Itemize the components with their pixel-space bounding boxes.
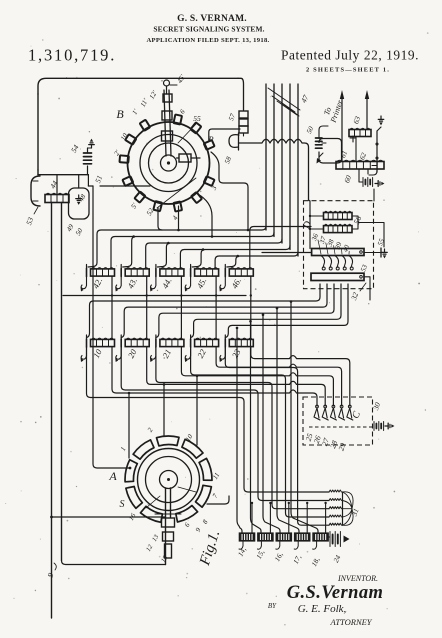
hump crossing wire (239, 139, 309, 200)
relay coil 43. (115, 265, 149, 292)
wire A brush to fan apex (207, 496, 229, 504)
fan arc (343, 508, 353, 510)
scan speckles (144, 98, 145, 99)
wire lower horizontal to A brush bottom (62, 561, 166, 565)
line relay 14, top wires (241, 532, 243, 534)
ground battery 24 (329, 532, 331, 547)
A ring segment at 76 deg (157, 436, 180, 446)
fan common vertical (342, 492, 344, 525)
wire from B left into hub (100, 185, 150, 187)
wire 60 to battery (359, 169, 368, 182)
svg-text:APPLICATION FILED SEPT. 13, 19: APPLICATION FILED SEPT. 13, 1918. (146, 37, 269, 44)
arrow under 50 (317, 158, 322, 164)
B contact pad at 282 deg (174, 202, 182, 212)
relay coil 42. (81, 265, 115, 292)
relay coil 45. (185, 265, 219, 292)
wire from pad 256deg down to bus 1 (158, 208, 162, 230)
wire from pad 24deg up to printer-side run (209, 129, 240, 140)
wire 56 right (352, 216, 358, 229)
leader lines at A (178, 487, 196, 492)
line relay 18, bottom hook (313, 541, 317, 549)
D bar1 right terminal (360, 251, 363, 254)
relay coil 44. (150, 265, 184, 292)
relay row1 unit 5 top-right riser (250, 227, 311, 269)
wire to printer arrow (341, 96, 343, 160)
D bar2 right terminal (360, 276, 363, 279)
B contact pad at 78 deg (174, 114, 182, 124)
A brush element 15 (165, 544, 172, 558)
small perp 62 (352, 136, 354, 142)
rotary distributor B inner circle (149, 143, 189, 183)
bus wire telegraph 4 to relay row1 unit 4 (192, 246, 290, 268)
bus wire telegraph 3 to relay row1 unit 3 (157, 239, 282, 267)
ground right of battery (375, 183, 378, 185)
D contact bar 2 (311, 273, 364, 280)
junction dots for distributor A feeds (128, 392, 131, 395)
svg-text:P: P (207, 134, 213, 144)
svg-text:55: 55 (193, 114, 201, 123)
wire 48 to bus (78, 175, 80, 188)
D contact finger 1 (321, 256, 325, 268)
relay coil 20 (115, 335, 149, 362)
C contact 1 (316, 405, 319, 408)
coil 57 stack (239, 111, 248, 118)
svg-text:1,310,719.: 1,310,719. (28, 46, 116, 65)
ladder resistor 5 (329, 523, 342, 525)
B contact pad at 148 deg (125, 134, 136, 144)
bus wire telegraph 1 to relay row1 unit 1 (88, 226, 266, 267)
D contact bar 1 (312, 249, 364, 256)
svg-text:G. S. VERNAM.: G. S. VERNAM. (177, 14, 247, 24)
svg-text:S: S (120, 499, 125, 510)
svg-text:SECRET SIGNALING SYSTEM.: SECRET SIGNALING SYSTEM. (153, 25, 264, 34)
wire 51 vertical (87, 175, 89, 186)
dashed relay box D (304, 201, 374, 289)
wire from long vertical to A brush (52, 516, 166, 518)
row1 unit 5 bottom drop to row2 coil (250, 276, 252, 339)
B arm top terminal (164, 80, 170, 86)
bus wire D exit 3 to relay row2 unit 3 (156, 284, 334, 338)
line relay 15, top wires (259, 532, 261, 534)
A circle outer (138, 449, 200, 511)
wire top horizontal main loop (38, 78, 238, 94)
D contact finger 2 (328, 256, 332, 268)
relay row1 unit 4 top-right riser (215, 256, 238, 269)
relay row1 unit 3 top-right riser (180, 250, 203, 269)
line relay 18, top wires (315, 532, 317, 534)
wire bus to line relay 2 (251, 321, 262, 533)
coil 63 (349, 130, 371, 137)
B contact pad at 256 deg (153, 201, 162, 211)
coil 54 vertical (84, 152, 92, 154)
C contact 5 (348, 405, 351, 408)
relay coil 23 (219, 335, 253, 362)
fan apex arcs outer (343, 492, 354, 509)
A brush element 13 (162, 518, 175, 527)
hook 58 (229, 133, 239, 150)
B brush arm element 45-prime (163, 94, 172, 102)
wire row2 unit 1 coil to bank C contact 1 (112, 347, 317, 406)
C common bar dashed (309, 426, 373, 428)
line relay 17, bottom hook (294, 541, 298, 549)
wire telegraph line vertical 1 (265, 84, 267, 230)
wire stub from brush P (191, 157, 200, 159)
wire bus to line relay 5 (291, 302, 318, 534)
line relay 17, (295, 533, 310, 541)
wire from pad 309deg curving to bus 2 (197, 194, 212, 237)
wire row2 unit 5 armature to ladder resistor 5 (225, 347, 329, 525)
row1 unit 1 bottom drop to row2 coil (111, 276, 113, 339)
wire 56 to ground 55 (358, 223, 384, 248)
battery 30 and ground (373, 422, 375, 431)
B leader line for 55 (178, 124, 196, 143)
bracket 53 (31, 176, 40, 206)
ground 55 right of D (380, 248, 382, 257)
line relay 15, bottom hook (257, 541, 261, 549)
wire row2 unit 4 coil to bank C contact 4 (216, 347, 342, 406)
wire telegraph line vertical 4 (289, 84, 291, 250)
line relay 17, top wires (296, 532, 298, 534)
line relay 18, (313, 533, 328, 541)
svg-text:INVENTOR.: INVENTOR. (337, 574, 378, 583)
line relay 16, top wires (278, 532, 280, 534)
svg-text:G.S.Vernam: G.S.Vernam (287, 583, 384, 603)
bus wire telegraph 5 to relay row1 unit 5 (227, 252, 298, 267)
D contact finger 4 (342, 256, 346, 268)
wire 57 to 58 (243, 133, 245, 136)
component 48 frame (69, 188, 90, 219)
ladder resistor 4 (329, 515, 342, 517)
fan arc (343, 509, 353, 526)
B contact pad at 122 deg (140, 120, 150, 131)
battery 59 (362, 178, 364, 187)
svg-text:2 SHEETS—SHEET 1.: 2 SHEETS—SHEET 1. (306, 67, 390, 74)
relay row1 unit 2 top-right riser (146, 243, 169, 269)
bus wire D exit 5 to relay row2 unit 5 (225, 284, 348, 338)
row1 unit 3 bottom drop to row2 coil (180, 276, 182, 339)
svg-text:BY: BY (268, 602, 277, 610)
line relay 15, (258, 533, 273, 541)
B contact pad at 52 deg (191, 122, 202, 133)
B contact pad at 309 deg (191, 192, 202, 203)
wire row2 unit 4 armature to ladder resistor 4 (191, 347, 329, 517)
A brush cross tick (155, 513, 181, 515)
D contact finger 5 (349, 256, 353, 268)
A ring segment at 191.5 deg (126, 487, 142, 509)
wire row2 unit 3 armature to ladder resistor 3 (156, 347, 329, 509)
svg-text:G. E. Folk,: G. E. Folk, (298, 603, 347, 615)
line relay 14, (240, 533, 255, 541)
wire telegraph line vertical 2 (273, 84, 275, 237)
bus wire D exit 2 to relay row2 unit 2 (121, 284, 327, 338)
line relay 16, bottom hook (276, 541, 280, 549)
wire row2 unit 1 armature to ladder resistor 1 (87, 347, 330, 492)
rotary distributor B middle circle (140, 135, 197, 192)
wire relay18 to battery (328, 536, 330, 538)
wire 54 down to junction (87, 166, 89, 175)
A ring segment at 282 deg (176, 506, 198, 523)
wire bus to line relay 4 (277, 308, 299, 533)
bus into D contact bar 1 (262, 252, 311, 254)
armature bars of relay 44 long verticals (51, 203, 53, 619)
A ring segment at 359 deg (199, 458, 212, 480)
ground above 54 (91, 145, 93, 148)
B contact pad at 204 deg (122, 176, 133, 186)
wire 63 up arrow (366, 96, 368, 130)
coil 56 upper bar (324, 213, 353, 220)
svg-text:B: B (116, 107, 124, 121)
wire telegraph line vertical 3 (281, 84, 283, 243)
A ring segment at 320.5 deg (196, 485, 212, 507)
A ring segment at 230 deg (141, 506, 163, 522)
relay row1 unit 1 top-right riser (111, 237, 134, 269)
C contact 3 (332, 405, 335, 408)
B contact pad at 175 deg (119, 155, 128, 163)
ladder resistor 1 (329, 490, 342, 492)
wire 56 left to contact bar 1 (309, 201, 311, 249)
right T ground (376, 131, 378, 172)
wire row2 unit 5 coil to bank C contact 5 (251, 347, 350, 406)
B inner brush P (179, 154, 191, 162)
dashed contact bank C (303, 397, 373, 445)
A hub circle (160, 471, 178, 489)
row1 unit 2 bottom drop to row2 coil (146, 276, 148, 339)
wire right side down from 60 (369, 160, 377, 175)
B contact pad at 24 deg (204, 140, 215, 150)
ladder resistor 2 (329, 499, 342, 501)
relay coil 46. (219, 265, 253, 292)
C contact 4 (340, 405, 343, 408)
wire row2 unit 3 coil to bank C contact 3 (181, 347, 333, 406)
component 50 coil small (316, 137, 323, 139)
svg-text:A: A (108, 469, 117, 483)
B brush arm element 2 (162, 111, 172, 120)
wire row2 unit 2 armature to ladder resistor 2 (121, 347, 329, 501)
A ring segment at 37.5 deg (182, 439, 203, 458)
B contact pad at 336 deg (204, 176, 215, 186)
D contact finger 3 (335, 256, 339, 268)
ladder resistor 3 (329, 507, 342, 509)
wire from pad 336deg down to bus nest (211, 152, 248, 230)
line relay 16, (276, 533, 291, 541)
wire bar2 right down (364, 277, 370, 300)
A ring segment at 153 deg (125, 460, 137, 482)
relay 44 vertical unit coil (45, 195, 69, 203)
wire corner to coil 57 (238, 78, 244, 110)
wire 63 to 60 (355, 137, 357, 162)
wire printer loop to D box (319, 126, 328, 143)
coil 60 (336, 162, 384, 170)
C contact 2 (324, 405, 327, 408)
relay coil 22 (185, 335, 219, 362)
B contact pad at 230 deg (134, 192, 145, 203)
rotary distributor B outer circle (128, 122, 210, 204)
wire bus to line relay 1 (237, 328, 242, 533)
wire from junction down to distributor A (93, 186, 129, 468)
row1 unit 4 bottom drop to row2 coil (215, 276, 217, 339)
svg-text:Patented July 22, 1919.: Patented July 22, 1919. (281, 48, 419, 63)
fan arc (343, 492, 353, 509)
wire from pad 282deg down to bus 1 (178, 206, 180, 230)
B brush arm (164, 90, 171, 156)
rotary distributor B hub circle (161, 155, 177, 171)
relay coil 10 (81, 335, 115, 362)
wire battery ground to D box top (373, 189, 375, 201)
wire left vertical of loop (37, 94, 39, 170)
wire bar1 to ground 55 (364, 252, 381, 254)
line relay 14, bottom hook (239, 541, 243, 549)
B leader line for 52 (157, 178, 196, 208)
row1 bottom bus (63, 295, 246, 297)
wires entering A from top (129, 376, 197, 458)
bus wire telegraph 2 to relay row1 unit 2 (123, 233, 274, 268)
wire loop at 50 (319, 139, 342, 164)
wire from relay 44 top (56, 175, 58, 195)
A brush element 12 (163, 532, 174, 541)
fan arc (343, 501, 353, 509)
wire horizontal y175 left branch (37, 170, 39, 175)
cable hatch 47 diagonal marks (268, 88, 300, 110)
wire row2 unit 2 coil to bank C contact 2 (147, 347, 326, 406)
B brush arm element 1 (162, 131, 173, 141)
A circle middle (146, 457, 192, 503)
relay coil 21 (150, 335, 184, 362)
svg-text:ATTORNEY: ATTORNEY (329, 617, 372, 627)
wire bus to line relay 3 (263, 315, 280, 533)
ground inside 48 (78, 195, 80, 199)
wire telegraph line vertical 5 (297, 84, 299, 256)
bus wire D exit 4 to relay row2 unit 4 (191, 284, 341, 338)
fan arc (343, 509, 353, 517)
coil 56 lower bar (324, 226, 353, 233)
A brush column (165, 488, 167, 565)
A ring segment at 114.5 deg (133, 440, 154, 459)
bus wire D exit 1 to relay row2 unit 1 (87, 284, 321, 338)
